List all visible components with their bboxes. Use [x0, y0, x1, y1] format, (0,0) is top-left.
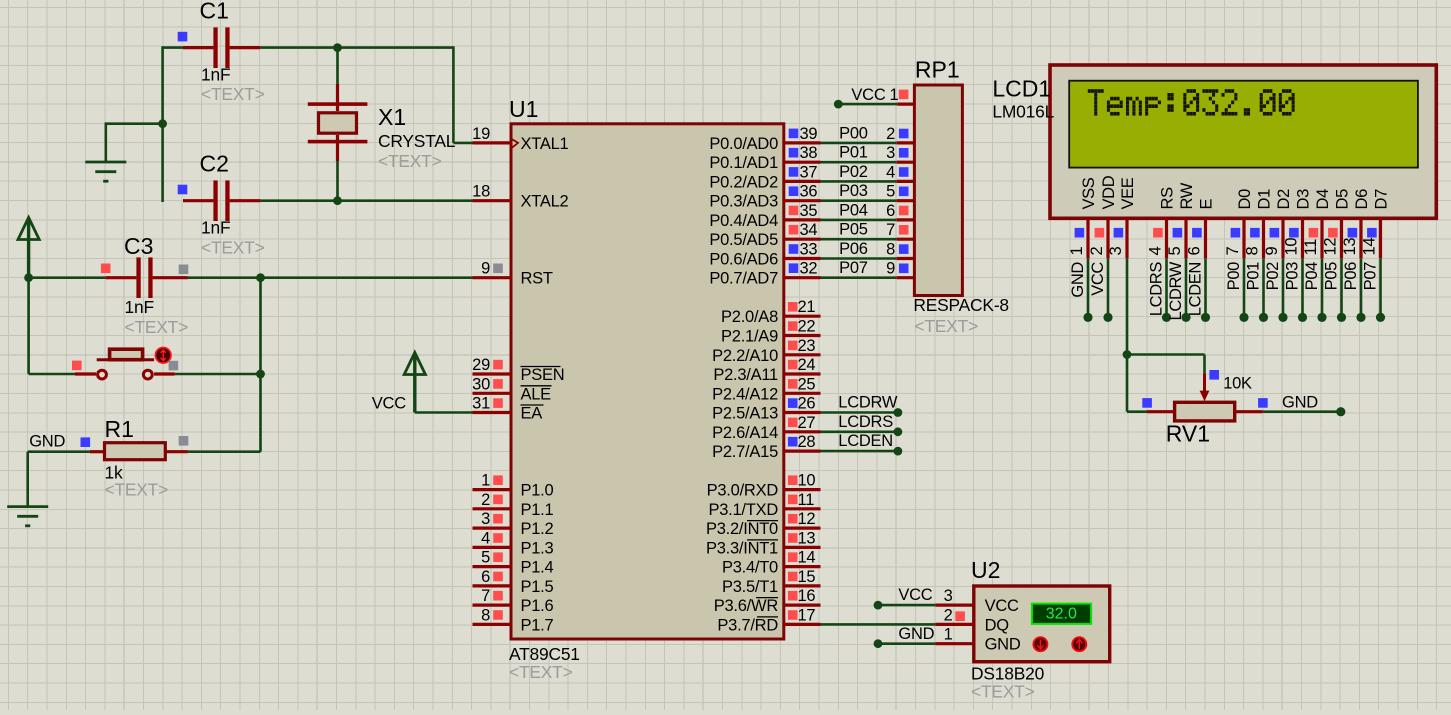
svg-text:P01: P01 — [839, 144, 868, 162]
LCD pin 1 state square — [1075, 228, 1085, 238]
clock input arrow XTAL1 — [512, 139, 519, 148]
C3 right pin state square — [179, 265, 189, 275]
svg-text:12: 12 — [1322, 238, 1340, 256]
svg-text:GND: GND — [1069, 262, 1087, 298]
svg-text:14: 14 — [798, 549, 816, 567]
svg-text:38: 38 — [800, 144, 818, 162]
pin 8 state square — [493, 610, 503, 620]
LCD screen — [1069, 81, 1418, 168]
pin 22 state square — [788, 321, 798, 331]
svg-text:P0.5/AD5: P0.5/AD5 — [709, 231, 778, 249]
pin 14 P3.4/T0 — [722, 549, 821, 577]
pin 12 state square — [788, 514, 798, 524]
svg-text:18: 18 — [472, 183, 490, 201]
svg-text:EA: EA — [521, 405, 543, 423]
svg-text:<TEXT>: <TEXT> — [201, 84, 265, 104]
svg-text:P3.5/T1: P3.5/T1 — [722, 578, 778, 596]
svg-text:13: 13 — [1341, 238, 1359, 256]
svg-text:P3.7/RD: P3.7/RD — [717, 616, 778, 634]
pin 28 P2.7/A15 — [712, 433, 820, 461]
svg-text:P0.2/AD2: P0.2/AD2 — [709, 173, 778, 191]
svg-text:8: 8 — [481, 606, 490, 624]
pin 16 state square — [788, 591, 798, 601]
svg-text:7: 7 — [481, 587, 490, 605]
pin 21 P2.0/A8 — [721, 298, 820, 326]
button left pin state square — [72, 361, 82, 371]
svg-text:CRYSTAL: CRYSTAL — [378, 131, 456, 151]
svg-text:P07: P07 — [1361, 262, 1379, 290]
LCD pin 8 D1 — [1244, 189, 1274, 258]
node LCDRS terminal — [894, 427, 903, 436]
svg-text:X1: X1 — [378, 104, 406, 130]
svg-text:5: 5 — [481, 549, 490, 567]
pin 6 state square — [493, 572, 503, 582]
wire vertical branch RST-button-R1 — [259, 278, 262, 452]
pin 27 state square — [788, 418, 798, 428]
node LCDEN terminal — [894, 447, 903, 456]
pin 35 P0.4/AD4 — [709, 202, 820, 230]
RP1 pin 7 state square — [899, 225, 909, 235]
pin 16 P3.6/WR — [714, 587, 821, 615]
node junction button branch — [256, 370, 265, 379]
ground (R1) — [7, 507, 48, 526]
svg-text:28: 28 — [798, 433, 816, 451]
svg-text:C2: C2 — [200, 151, 229, 177]
svg-text:P1.3: P1.3 — [521, 539, 554, 557]
svg-text:DS18B20: DS18B20 — [971, 664, 1044, 684]
svg-text:D4: D4 — [1314, 189, 1332, 210]
svg-text:P1.2: P1.2 — [521, 520, 554, 538]
svg-text:P3.0/RXD: P3.0/RXD — [707, 482, 779, 500]
wire LCD pin 12 net — [1340, 258, 1343, 317]
wire LCD pin 7 net — [1243, 258, 1246, 317]
node LCDRW terminal — [894, 408, 903, 417]
node junction RST branch — [256, 273, 265, 282]
svg-text:RP1: RP1 — [915, 57, 960, 83]
svg-text:AT89C51: AT89C51 — [509, 644, 580, 664]
svg-text:7: 7 — [886, 221, 895, 239]
pin 34 state square — [789, 225, 799, 235]
pin 1 P1.0 — [473, 472, 554, 500]
wire to ground (osc) — [106, 122, 163, 162]
pin 5 state square — [493, 552, 503, 562]
C3 left pin state square — [101, 264, 111, 274]
U2 down button — [1033, 637, 1047, 651]
svg-text:P0.6/AD6: P0.6/AD6 — [709, 251, 778, 269]
svg-text:4: 4 — [481, 529, 490, 547]
svg-text:26: 26 — [798, 395, 816, 413]
node junction VEE — [1123, 350, 1132, 359]
wire C3 to RST pin — [188, 276, 473, 279]
pin 23 P2.2/A10 — [712, 337, 820, 365]
svg-text:P1.5: P1.5 — [521, 578, 554, 596]
wire VCC net to U2 — [878, 604, 935, 607]
svg-text:P2.0/A8: P2.0/A8 — [721, 308, 778, 326]
svg-text:LCDEN: LCDEN — [838, 432, 893, 450]
capacitor C1 — [183, 27, 260, 68]
svg-text:3: 3 — [886, 144, 895, 162]
wire LCD pin 14 net — [1379, 258, 1382, 317]
LCD pin 10 state square — [1289, 228, 1299, 238]
pin 27 P2.6/A14 — [712, 414, 820, 442]
LCD pin 14 state square — [1367, 228, 1377, 238]
wire GND net to U2 — [878, 642, 935, 645]
pin 24 state square — [788, 360, 798, 370]
svg-text:VSS: VSS — [1080, 177, 1098, 209]
LCD pin 1 VSS — [1068, 177, 1098, 258]
svg-text:P02: P02 — [839, 163, 868, 181]
svg-text:37: 37 — [800, 163, 818, 181]
svg-text:8: 8 — [886, 241, 895, 259]
svg-text:LM016L: LM016L — [992, 102, 1054, 122]
svg-text:32.0: 32.0 — [1046, 606, 1077, 623]
resistor-pack pin 5 — [886, 183, 914, 201]
pin 26 P2.5/A13 — [712, 395, 820, 423]
node junction RST/power — [24, 273, 33, 282]
svg-text:P3.6/WR: P3.6/WR — [714, 597, 779, 615]
pin 34 P0.5/AD5 — [709, 221, 820, 249]
svg-text:P3.4/T0: P3.4/T0 — [722, 559, 778, 577]
svg-text:2: 2 — [481, 491, 490, 509]
pin 33 P0.6/AD6 — [709, 241, 820, 269]
svg-text:21: 21 — [798, 298, 816, 316]
svg-text:D6: D6 — [1353, 189, 1371, 210]
svg-text:GND: GND — [898, 625, 934, 643]
svg-text:14: 14 — [1361, 238, 1379, 256]
svg-text:1nF: 1nF — [201, 65, 230, 85]
node GND terminal (U2) — [874, 639, 883, 648]
svg-text:25: 25 — [798, 375, 816, 393]
svg-text:7: 7 — [1224, 247, 1242, 256]
pin 3 state square — [493, 514, 503, 524]
svg-text:1: 1 — [1068, 247, 1086, 256]
LCD pin 5 RW — [1166, 182, 1196, 258]
pin 18 XTAL2 — [472, 183, 568, 211]
RP1 pin 3 state square — [899, 148, 909, 158]
svg-text:1: 1 — [944, 626, 953, 644]
svg-text:ALE: ALE — [521, 385, 552, 403]
svg-text:U2: U2 — [971, 557, 1000, 583]
U2 pin 3 — [935, 587, 974, 605]
LCD pin 12 D5 — [1322, 189, 1352, 258]
RP1 pin 2 state square — [899, 129, 909, 139]
resistor-pack pin 8 — [886, 241, 914, 259]
svg-text:P00: P00 — [1225, 262, 1243, 290]
svg-text:LCDRS: LCDRS — [1147, 262, 1165, 317]
svg-text:36: 36 — [800, 183, 818, 201]
svg-text:LCDRW: LCDRW — [1167, 261, 1185, 320]
svg-text:VDD: VDD — [1100, 175, 1118, 209]
wire P06 net — [821, 257, 897, 260]
svg-text:6: 6 — [481, 568, 490, 586]
pin 31 state square — [493, 398, 503, 408]
svg-text:D0: D0 — [1236, 189, 1254, 210]
C2 pin state square — [178, 185, 188, 195]
wire C1 left to corner — [163, 46, 183, 202]
svg-text:P1.4: P1.4 — [521, 559, 554, 577]
resistor-pack pin 9 — [886, 260, 914, 278]
svg-text:13: 13 — [798, 529, 816, 547]
svg-text:XTAL2: XTAL2 — [521, 193, 569, 211]
svg-text:6: 6 — [886, 202, 895, 220]
svg-text:16: 16 — [798, 587, 816, 605]
svg-text:P03: P03 — [1283, 262, 1301, 290]
svg-text:PSEN: PSEN — [521, 366, 565, 384]
node terminal pin 8 — [1259, 313, 1268, 322]
pin 29 PSEN — [472, 356, 564, 384]
power terminal VCC (EA) — [404, 353, 472, 413]
wire LCDRW net — [821, 411, 898, 414]
svg-text:1: 1 — [890, 86, 899, 104]
pin 4 P1.3 — [473, 529, 554, 557]
svg-text:E: E — [1198, 199, 1216, 210]
pin 33 state square — [789, 244, 799, 254]
svg-text:P1.6: P1.6 — [521, 597, 554, 615]
LCD pin 3 VEE — [1107, 177, 1137, 258]
U2 pin 1 — [935, 626, 974, 644]
svg-text:33: 33 — [800, 241, 818, 259]
wire VEE to RV1 — [1127, 258, 1205, 411]
svg-text:LCDRS: LCDRS — [838, 413, 893, 431]
U2 temperature display — [1032, 604, 1091, 624]
button right pin state square — [169, 361, 179, 371]
resistor-pack pin 4 — [886, 163, 914, 181]
svg-text:2: 2 — [944, 606, 953, 624]
wire P01 net — [821, 161, 897, 164]
button actuator widget — [155, 348, 171, 364]
wire LCD pin 2 net — [1107, 258, 1110, 317]
LCD pin 8 state square — [1250, 228, 1260, 238]
potentiometer RV1 — [1147, 373, 1263, 421]
node terminal pin 13 — [1356, 313, 1365, 322]
LCD text Temp:032.00 — [1088, 89, 1295, 115]
pin 37 state square — [789, 167, 799, 177]
LCD pin 6 state square — [1192, 228, 1202, 238]
svg-text:1nF: 1nF — [125, 297, 154, 317]
node terminal pin 2 — [1103, 313, 1112, 322]
svg-text:D5: D5 — [1334, 189, 1352, 210]
svg-text:P0.4/AD4: P0.4/AD4 — [709, 212, 778, 230]
pin 36 state square — [789, 186, 799, 196]
pin 29 state square — [493, 360, 503, 370]
RV1 right state square — [1258, 398, 1268, 408]
node VCC terminal — [834, 100, 843, 109]
wire LCD pin 11 net — [1321, 258, 1324, 317]
pin 36 P0.3/AD3 — [709, 183, 820, 211]
svg-text:LCD1: LCD1 — [992, 76, 1051, 102]
svg-text:<TEXT>: <TEXT> — [201, 238, 265, 258]
pin 21 state square — [788, 302, 798, 312]
wire P3.7 to U2 DQ — [821, 623, 936, 626]
wire LCD pin 4 net — [1165, 258, 1168, 317]
svg-text:10K: 10K — [1223, 375, 1252, 393]
svg-text:LCDEN: LCDEN — [1186, 262, 1204, 316]
svg-text:35: 35 — [800, 202, 818, 220]
pin 35 state square — [789, 206, 799, 216]
pin 37 P0.2/AD2 — [709, 163, 820, 191]
svg-text:RW: RW — [1178, 182, 1196, 209]
pin 14 state square — [788, 552, 798, 562]
svg-text:DQ: DQ — [985, 616, 1010, 634]
U2 up button — [1072, 637, 1086, 651]
pin 13 P3.3/INT1 — [706, 529, 821, 557]
svg-text:P2.2/A10: P2.2/A10 — [712, 347, 778, 365]
resistor pack RP1 body — [914, 85, 962, 296]
RP1 pin 8 state square — [899, 244, 909, 254]
svg-text:P07: P07 — [839, 259, 868, 277]
wire P02 net — [821, 180, 897, 183]
LCD pin 13 D6 — [1341, 189, 1371, 258]
LCD pin 10 D3 — [1283, 189, 1313, 258]
pin 4 state square — [493, 533, 503, 543]
pin 24 P2.3/A11 — [713, 356, 820, 384]
pin 26 state square — [788, 398, 798, 408]
LCD pin 13 state square — [1348, 228, 1358, 238]
svg-text:3: 3 — [944, 587, 953, 605]
wire P07 net — [821, 276, 897, 279]
svg-text:P0.0/AD0: P0.0/AD0 — [709, 135, 778, 153]
LCD pin 9 state square — [1270, 228, 1280, 238]
pin 17 P3.7/RD — [717, 606, 820, 634]
svg-text:VCC: VCC — [372, 395, 406, 413]
RP1 pin 6 state square — [899, 206, 909, 216]
resistor-pack pin 3 — [886, 144, 914, 162]
node terminal pin 14 — [1376, 313, 1385, 322]
svg-text:P05: P05 — [839, 221, 868, 239]
RP1 pin 5 state square — [899, 187, 909, 197]
resistor R1 — [28, 443, 261, 460]
svg-text:VCC: VCC — [985, 597, 1019, 615]
svg-text:RESPACK-8: RESPACK-8 — [913, 295, 1009, 315]
node terminal pin 12 — [1337, 313, 1346, 322]
svg-text:D1: D1 — [1256, 189, 1274, 210]
pin 38 P0.1/AD1 — [709, 144, 820, 172]
node terminal pin 6 — [1201, 313, 1210, 322]
svg-text:P2.6/A14: P2.6/A14 — [712, 424, 778, 442]
svg-text:P1.7: P1.7 — [521, 616, 554, 634]
U2 pin 2 state square — [955, 611, 965, 621]
svg-text:P3.3/INT1: P3.3/INT1 — [706, 539, 778, 557]
svg-text:D2: D2 — [1275, 189, 1293, 210]
svg-text:P2.5/A13: P2.5/A13 — [712, 405, 778, 423]
svg-text:4: 4 — [886, 163, 895, 181]
svg-text:R1: R1 — [105, 416, 134, 442]
svg-text:<TEXT>: <TEXT> — [971, 682, 1035, 702]
svg-text:19: 19 — [472, 125, 490, 143]
RV1 left state square — [1142, 398, 1152, 408]
pin 9 RST — [473, 260, 553, 288]
svg-text:P0.7/AD7: P0.7/AD7 — [709, 270, 778, 288]
svg-text:1nF: 1nF — [201, 218, 230, 238]
svg-text:C1: C1 — [200, 0, 229, 24]
pin 2 state square — [493, 495, 503, 505]
pin 17 state square — [788, 610, 798, 620]
wire GND net to ground — [26, 452, 29, 507]
pin 12 P3.2/INT0 — [706, 510, 821, 538]
R1 left pin state square — [81, 437, 91, 447]
LCD pin 5 state square — [1173, 228, 1183, 238]
resistor-pack pin 2 — [886, 125, 914, 143]
capacitor C3 — [29, 257, 188, 298]
node terminal pin 1 — [1083, 313, 1092, 322]
svg-text:P0.1/AD1: P0.1/AD1 — [709, 154, 778, 172]
svg-text:RST: RST — [521, 270, 553, 288]
RP1 pin 4 state square — [899, 167, 909, 177]
node GND terminal (RV1) — [1336, 407, 1345, 416]
svg-text:11: 11 — [1302, 239, 1320, 256]
wire C1 to XTAL1 rail — [260, 46, 472, 143]
pin 7 P1.6 — [473, 587, 554, 615]
svg-text:39: 39 — [800, 125, 818, 143]
pin 39 P0.0/AD0 — [709, 125, 820, 153]
node junction X1 bottom — [333, 196, 342, 205]
svg-text:17: 17 — [798, 606, 816, 624]
C1 pin state square — [178, 32, 188, 42]
wire RV1 to GND terminal — [1263, 410, 1341, 413]
svg-text:VCC: VCC — [898, 586, 932, 604]
pin 23 state square — [788, 341, 798, 351]
LCD display LCD1 body — [1050, 65, 1436, 218]
pin 1 state square — [493, 475, 503, 485]
ground (oscillator) — [85, 162, 126, 181]
LCD pin 12 state square — [1328, 228, 1338, 238]
pin 8 P1.7 — [473, 606, 554, 634]
svg-text:<TEXT>: <TEXT> — [105, 480, 169, 500]
svg-text:23: 23 — [798, 337, 816, 355]
temperature sensor U2 DS18B20 body — [974, 586, 1110, 662]
svg-text:32: 32 — [800, 260, 818, 278]
svg-text:8: 8 — [1244, 247, 1262, 256]
svg-text:11: 11 — [798, 491, 815, 509]
LCD pin 4 RS — [1147, 187, 1177, 258]
pin 13 state square — [788, 533, 798, 543]
svg-text:9: 9 — [1263, 247, 1281, 256]
node VCC terminal (U2) — [874, 601, 883, 610]
wire LCD pin 10 net — [1301, 258, 1304, 317]
pin 38 state square — [789, 148, 799, 158]
wire LCD pin 5 net — [1185, 258, 1188, 317]
svg-text:27: 27 — [798, 414, 816, 432]
wire VCC net to RP1 pin 1 — [838, 103, 897, 106]
svg-text:P04: P04 — [839, 201, 868, 219]
pin 25 P2.4/A12 — [712, 375, 820, 403]
svg-text:<TEXT>: <TEXT> — [914, 316, 978, 336]
svg-text:P03: P03 — [839, 182, 868, 200]
wire P05 net — [821, 238, 897, 241]
pin 32 state square — [789, 263, 799, 273]
svg-text:P2.4/A12: P2.4/A12 — [712, 385, 778, 403]
capacitor C2 — [183, 180, 260, 221]
push button — [29, 349, 261, 379]
svg-text:4: 4 — [1147, 247, 1165, 256]
svg-text:3: 3 — [481, 510, 490, 528]
wire LCD pin 1 net — [1087, 258, 1090, 317]
svg-text:29: 29 — [472, 356, 490, 374]
LCD pin 3 state square — [1114, 228, 1124, 238]
pin 39 state square — [789, 129, 799, 139]
pin 32 P0.7/AD7 — [709, 260, 820, 288]
resistor-pack pin 7 — [886, 221, 914, 239]
wire LCDRS net — [821, 430, 898, 433]
svg-text:VCC: VCC — [851, 86, 885, 104]
svg-text:VCC: VCC — [1089, 262, 1107, 296]
svg-text:RS: RS — [1159, 187, 1177, 210]
node terminal pin 9 — [1278, 313, 1287, 322]
svg-text:22: 22 — [798, 318, 816, 336]
resistor-pack pin 6 — [886, 202, 914, 220]
RP1 pin 1 state square — [899, 90, 909, 100]
resistor-pack pin 1 — [890, 86, 915, 104]
